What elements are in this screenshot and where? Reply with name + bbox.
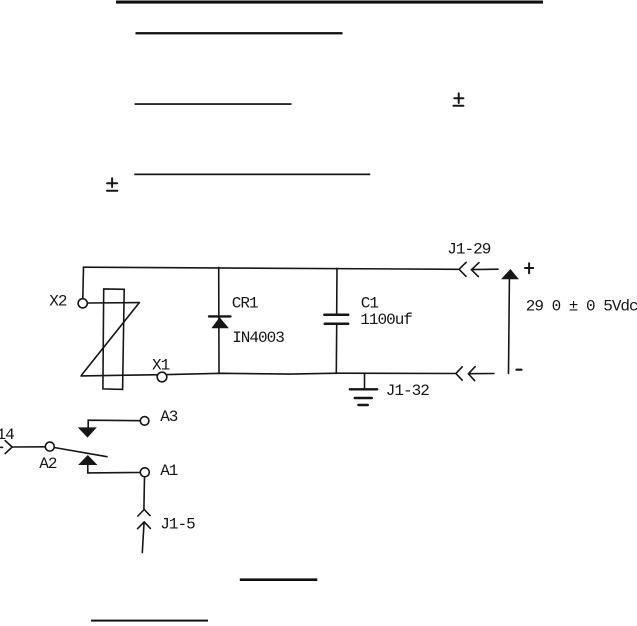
svg-text:X2: X2 bbox=[49, 293, 67, 311]
label + bbox=[525, 263, 533, 273]
connector J1-5 chevron bbox=[138, 510, 150, 517]
ground bar 2 bbox=[355, 397, 372, 399]
svg-text:A3: A3 bbox=[160, 408, 178, 426]
wire: X2 to coil bbox=[87, 302, 139, 304]
switch contact A3 arrow (normally closed, pointing down) bbox=[78, 427, 97, 437]
ground bar 3 bbox=[358, 404, 367, 406]
redacted text line 4 bbox=[134, 174, 370, 176]
switch contact A3 circle bbox=[140, 417, 149, 426]
capacitor C1 bottom plate bbox=[325, 323, 348, 326]
svg-text:A2: A2 bbox=[39, 455, 57, 473]
svg-text:29 0 ± 0 5Vdc: 29 0 ± 0 5Vdc bbox=[526, 297, 637, 315]
terminal X1 circle bbox=[157, 372, 167, 382]
label - bbox=[517, 369, 522, 371]
switch contact A1 circle bbox=[140, 468, 149, 477]
wire: A1 contact lead bbox=[88, 465, 141, 473]
wire: left vertical drop to X2 bbox=[82, 267, 85, 299]
redacted text line 5 (bottom center) bbox=[240, 578, 317, 581]
switch contact A1 arrow (pointing up at pole) bbox=[78, 455, 97, 465]
redacted text line 3 bbox=[135, 103, 292, 105]
redacted text line 2 bbox=[136, 32, 343, 34]
switch pole A2 circle bbox=[45, 442, 54, 451]
connector J1-29 mating arrow bbox=[471, 263, 479, 277]
connector J1-5 mating arrow bbox=[138, 522, 151, 529]
coil K1 body (rectangle) bbox=[103, 289, 124, 390]
svg-text:J1-29: J1-29 bbox=[447, 241, 490, 259]
svg-text:1100uf: 1100uf bbox=[360, 311, 412, 329]
connector J1-29 chevron bbox=[459, 262, 466, 276]
connector J1-32 mating arrow bbox=[468, 367, 475, 381]
diode CR1 cathode bar bbox=[209, 315, 231, 317]
diode CR1 vertical wire bbox=[218, 267, 220, 373]
tolerance symbol ± (left margin) bbox=[107, 178, 117, 191]
wire: voltage reference vertical bbox=[508, 279, 511, 373]
redacted text line 6 (bottom left) bbox=[91, 620, 208, 622]
connector J1-32 chevron bbox=[456, 367, 462, 380]
ground bar 1 bbox=[350, 388, 377, 390]
capacitor C1 top plate bbox=[324, 314, 348, 317]
coil K1 diagonal element bbox=[82, 303, 140, 375]
switch pole arm (moving contact) bbox=[54, 448, 107, 457]
connector chevron from net 14 bbox=[0, 446, 3, 448]
wire: A3 contact lead bbox=[88, 420, 140, 427]
wire: A1 down to J1-5 bbox=[143, 477, 146, 509]
svg-text:CR1: CR1 bbox=[232, 294, 258, 312]
svg-text:J1-32: J1-32 bbox=[386, 382, 429, 400]
wire: bottom rail bbox=[81, 373, 455, 376]
ground stub wire bbox=[364, 374, 366, 388]
wire: pole lead to A2 bbox=[12, 446, 45, 448]
capacitor C1 upper wire bbox=[336, 268, 338, 313]
tolerance symbol ± (upper right) bbox=[453, 93, 463, 105]
redacted text line 1 (top heading underline) bbox=[116, 1, 543, 4]
terminal X2 circle bbox=[78, 299, 87, 308]
polarity + marker triangle bbox=[501, 269, 519, 279]
diode CR1 anode triangle bbox=[211, 317, 229, 328]
wire: top rail bbox=[84, 267, 458, 269]
svg-text:C1: C1 bbox=[361, 294, 379, 312]
svg-text:14: 14 bbox=[0, 426, 14, 444]
svg-text:A1: A1 bbox=[160, 462, 178, 480]
svg-text:IN4003: IN4003 bbox=[232, 329, 284, 347]
svg-text:J1-5: J1-5 bbox=[160, 516, 195, 534]
capacitor C1 lower wire bbox=[335, 325, 337, 373]
